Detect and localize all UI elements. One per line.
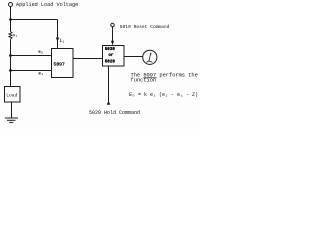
multiplier block U1 5097 xyxy=(52,49,74,78)
svg-text:e₂: e₂ xyxy=(38,51,43,55)
meter M1 xyxy=(143,50,157,64)
svg-text:Eₒ = k e₁ (e₂ - e₁ - Z): Eₒ = k e₁ (e₂ - e₁ - Z) xyxy=(129,92,198,98)
svg-text:e₁: e₁ xyxy=(38,73,43,77)
arrowhead into switch block top xyxy=(111,41,114,46)
meter pivot base xyxy=(146,61,149,62)
ground xyxy=(5,117,18,119)
wire 5097 output to switch block xyxy=(73,58,103,60)
switch block 5030 or 5020 xyxy=(103,46,125,67)
wire e2 input xyxy=(11,55,53,57)
wire top horizontal xyxy=(11,19,58,21)
resistor R1 xyxy=(9,32,12,40)
svg-text:function: function xyxy=(131,78,157,84)
arrowhead hold command pointing up xyxy=(107,101,111,105)
svg-text:Load: Load xyxy=(6,93,17,99)
wire reset command down into switch block xyxy=(112,27,114,45)
svg-text:Applied Load Voltage: Applied Load Voltage xyxy=(16,2,78,8)
wire hold command below switch block xyxy=(108,66,110,104)
current arrow on top pin wire xyxy=(56,38,59,43)
svg-text:5030: 5030 xyxy=(105,48,116,52)
svg-text:5020 Hold Command: 5020 Hold Command xyxy=(89,110,140,116)
node dot top-left junction xyxy=(9,18,12,21)
load box xyxy=(5,87,21,103)
svg-text:5097: 5097 xyxy=(54,61,65,67)
svg-text:i₁: i₁ xyxy=(60,39,65,44)
wire switch block output to meter xyxy=(124,56,144,58)
svg-text:or: or xyxy=(108,54,114,58)
svg-text:R₁: R₁ xyxy=(13,34,18,38)
node dot e2 junction xyxy=(9,54,12,57)
meter needle xyxy=(149,54,151,61)
wire rail below resistor xyxy=(10,39,12,86)
svg-text:5010 Reset Command: 5010 Reset Command xyxy=(120,24,170,30)
terminal: applied load voltage input xyxy=(9,3,13,7)
svg-text:5020: 5020 xyxy=(105,61,116,65)
terminal: reset command input xyxy=(111,23,114,26)
wire from input terminal down xyxy=(10,7,12,20)
wire down to 5097 top pin xyxy=(57,20,59,49)
wire e1 input xyxy=(11,70,53,72)
wire load to ground xyxy=(11,102,13,118)
node dot e1 junction xyxy=(9,69,12,72)
wire rail above resistor xyxy=(10,20,12,32)
